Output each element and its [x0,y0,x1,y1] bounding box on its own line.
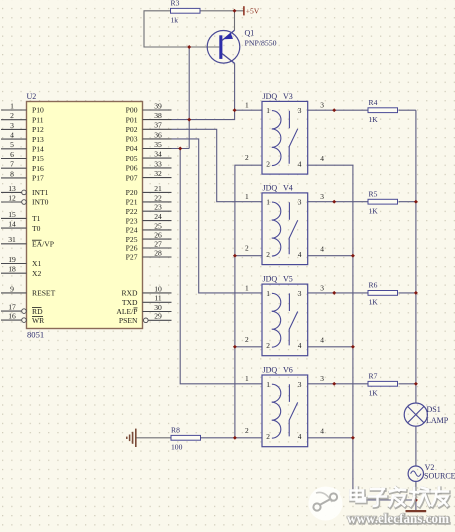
svg-text:2: 2 [266,159,270,168]
svg-text:V6: V6 [283,365,293,374]
svg-text:WR: WR [32,316,45,325]
svg-text:15: 15 [8,210,16,219]
svg-text:P22: P22 [126,207,138,216]
svg-text:25: 25 [154,221,162,230]
svg-text:EA/VP: EA/VP [32,240,54,249]
svg-text:X2: X2 [32,269,41,278]
svg-text:3: 3 [10,121,14,130]
svg-text:P25: P25 [126,235,138,244]
svg-text:R4: R4 [369,98,378,107]
svg-text:LAMP: LAMP [426,416,449,425]
svg-text:7: 7 [10,160,14,169]
svg-text:6: 6 [10,150,14,159]
svg-text:SOURCE: SOURCE [424,472,455,481]
svg-text:P00: P00 [126,106,138,115]
svg-text:3: 3 [298,198,302,207]
svg-text:19: 19 [8,255,16,264]
svg-text:U2: U2 [27,92,37,101]
svg-text:31: 31 [8,235,16,244]
svg-text:R5: R5 [369,190,378,199]
svg-text:1: 1 [245,283,249,292]
svg-text:P16: P16 [32,164,44,173]
svg-text:33: 33 [154,159,162,168]
svg-text:4: 4 [320,336,324,345]
svg-text:16: 16 [8,312,16,321]
svg-text:1: 1 [10,101,14,110]
svg-text:INT0: INT0 [32,198,49,207]
svg-text:P07: P07 [126,173,138,182]
svg-text:R6: R6 [369,281,378,290]
svg-text:2: 2 [245,335,249,344]
svg-text:36: 36 [154,130,162,139]
svg-text:RD: RD [32,307,43,316]
svg-text:3: 3 [320,101,324,110]
svg-text:R7: R7 [369,372,378,381]
svg-text:1: 1 [245,101,249,110]
svg-text:9: 9 [10,284,14,293]
svg-text:4: 4 [320,154,324,163]
svg-text:X1: X1 [32,259,41,268]
svg-text:V5: V5 [283,275,293,284]
svg-text:10: 10 [154,284,162,293]
svg-text:1: 1 [266,289,270,298]
svg-text:1: 1 [266,106,270,115]
svg-text:17: 17 [8,303,16,312]
svg-text:30: 30 [154,303,162,312]
svg-text:RESET: RESET [32,289,56,298]
svg-text:P20: P20 [126,188,138,197]
svg-text:P05: P05 [126,154,138,163]
svg-text:39: 39 [154,101,162,110]
svg-text:1K: 1K [369,388,379,397]
svg-text:28: 28 [154,248,162,257]
svg-text:4: 4 [298,341,302,350]
svg-text:P10: P10 [32,106,44,115]
svg-text:2: 2 [266,432,270,441]
svg-text:P27: P27 [126,253,138,262]
svg-text:1: 1 [245,192,249,201]
svg-text:27: 27 [154,239,162,248]
svg-text:+5V: +5V [246,7,260,16]
svg-text:32: 32 [154,169,162,178]
svg-text:13: 13 [8,184,16,193]
svg-text:21: 21 [154,184,162,193]
svg-text:P15: P15 [32,154,44,163]
svg-text:24: 24 [154,212,162,221]
svg-text:2: 2 [266,250,270,259]
svg-text:DS1: DS1 [427,405,441,414]
svg-text:P23: P23 [126,216,138,225]
svg-text:37: 37 [154,121,162,130]
svg-text:18: 18 [8,265,16,274]
svg-text:1: 1 [266,198,270,207]
svg-text:JDQ: JDQ [263,365,278,374]
svg-text:V3: V3 [283,92,293,101]
svg-text:4: 4 [320,245,324,254]
svg-text:P17: P17 [32,174,44,183]
svg-text:P13: P13 [32,135,44,144]
svg-text:PNP/8550: PNP/8550 [245,38,277,47]
svg-text:PSEN: PSEN [119,316,138,325]
svg-text:P01: P01 [126,115,138,124]
svg-text:4: 4 [10,131,14,140]
svg-text:INT1: INT1 [32,188,49,197]
svg-text:8: 8 [10,169,14,178]
svg-text:P06: P06 [126,164,138,173]
svg-text:23: 23 [154,203,162,212]
svg-text:T1: T1 [32,214,41,223]
svg-text:RXD: RXD [121,289,138,298]
svg-text:38: 38 [154,111,162,120]
svg-text:26: 26 [154,231,162,240]
svg-text:3: 3 [298,106,302,115]
svg-text:R8: R8 [171,426,180,435]
svg-text:4: 4 [298,159,302,168]
svg-text:P24: P24 [126,226,138,235]
svg-text:1: 1 [245,374,249,383]
svg-text:1: 1 [266,380,270,389]
svg-text:JDQ: JDQ [263,183,278,192]
svg-text:www.elecfans.com: www.elecfans.com [347,511,450,526]
svg-text:T0: T0 [32,224,41,233]
svg-text:JDQ: JDQ [263,275,278,284]
svg-text:1K: 1K [369,115,379,124]
svg-text:35: 35 [154,140,162,149]
svg-text:100: 100 [171,442,183,451]
svg-text:8051: 8051 [27,330,44,340]
svg-text:2: 2 [245,244,249,253]
svg-text:2: 2 [245,426,249,435]
svg-text:1K: 1K [369,298,379,307]
svg-text:14: 14 [8,220,16,229]
svg-text:P21: P21 [126,198,138,207]
svg-text:4: 4 [298,250,302,259]
svg-text:4: 4 [320,427,324,436]
svg-text:P11: P11 [32,115,44,124]
svg-text:P04: P04 [126,144,138,153]
svg-text:3: 3 [320,192,324,201]
svg-text:2: 2 [10,111,14,120]
svg-text:29: 29 [154,312,162,321]
svg-text:12: 12 [8,193,16,202]
svg-text:2: 2 [266,341,270,350]
svg-text:P03: P03 [126,135,138,144]
svg-text:34: 34 [154,150,162,159]
svg-text:3: 3 [298,380,302,389]
svg-text:ALE/P: ALE/P [116,307,137,316]
svg-text:R3: R3 [171,0,180,8]
svg-text:P12: P12 [32,125,44,134]
svg-text:5: 5 [10,140,14,149]
svg-text:2: 2 [245,153,249,162]
svg-text:JDQ: JDQ [263,92,278,101]
svg-text:1K: 1K [369,206,379,215]
svg-text:22: 22 [154,193,162,202]
svg-text:4: 4 [298,432,302,441]
svg-text:3: 3 [298,289,302,298]
svg-text:11: 11 [154,294,162,303]
svg-text:P14: P14 [32,145,44,154]
svg-text:V4: V4 [283,183,293,192]
svg-text:Q1: Q1 [245,29,255,38]
svg-text:3: 3 [320,374,324,383]
svg-text:1k: 1k [171,15,179,24]
svg-text:P26: P26 [126,244,138,253]
svg-text:P02: P02 [126,125,138,134]
svg-text:3: 3 [320,283,324,292]
svg-text:TXD: TXD [122,298,138,307]
